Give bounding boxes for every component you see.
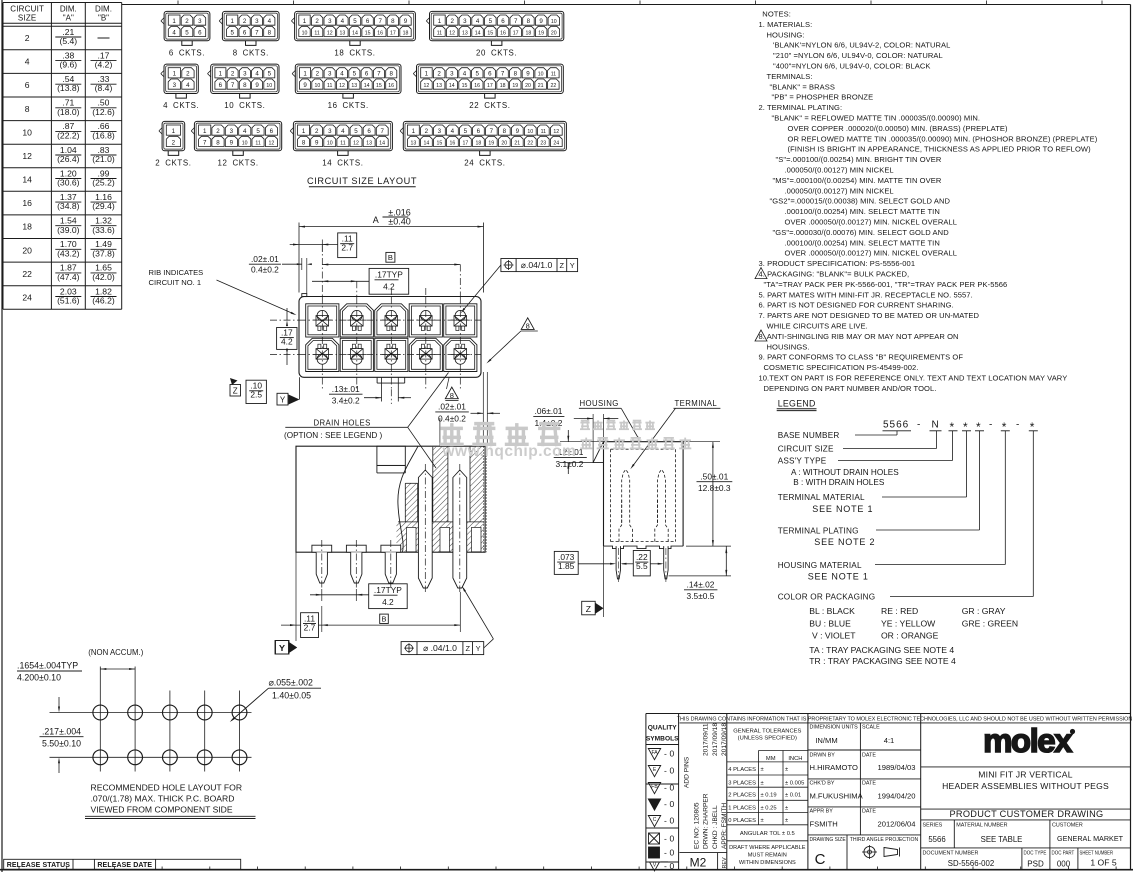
svg-text:10: 10 <box>266 83 272 89</box>
svg-text:(4.2): (4.2) <box>95 60 113 70</box>
svg-text:OR REFLOWED MATTE TIN .000035/: OR REFLOWED MATTE TIN .000035/(0.00090) … <box>788 134 1098 143</box>
svg-text:18: 18 <box>500 83 506 89</box>
svg-text:(13.8): (13.8) <box>57 83 80 93</box>
svg-text:3.4±0.2: 3.4±0.2 <box>332 395 360 405</box>
svg-text:17: 17 <box>513 30 519 36</box>
svg-text:22: 22 <box>22 269 32 279</box>
svg-text:16: 16 <box>388 83 394 89</box>
svg-text:(NON ACCUM.): (NON ACCUM.) <box>88 648 143 657</box>
svg-text:DATE: DATE <box>862 753 876 759</box>
svg-text:"400"=NYLON 6/6, UL94V-0, COLO: "400"=NYLON 6/6, UL94V-0, COLOR: BLACK <box>773 62 931 71</box>
svg-text:"BLANK" = BRASS: "BLANK" = BRASS <box>770 82 836 91</box>
dim .11/2.7 top <box>338 233 357 258</box>
svg-text:"GS2"=.000015/(0.00038) MIN. S: "GS2"=.000015/(0.00038) MIN. SELECT GOLD… <box>770 197 951 206</box>
svg-text:5: 5 <box>230 29 234 36</box>
svg-text:Z: Z <box>560 261 565 270</box>
connector 2 ckts <box>162 121 185 150</box>
svg-text:4.2: 4.2 <box>383 281 395 291</box>
svg-text:THIRD ANGLE PROJECTION: THIRD ANGLE PROJECTION <box>850 837 919 843</box>
svg-text:16: 16 <box>22 198 32 208</box>
svg-text:MINI FIT JR VERTICAL: MINI FIT JR VERTICAL <box>978 770 1072 780</box>
svg-text:2: 2 <box>243 18 247 25</box>
svg-text:5. PART MATES WITH MINI-FIT JR: 5. PART MATES WITH MINI-FIT JR. RECEPTAC… <box>759 290 973 299</box>
svg-text:SEE NOTE 2: SEE NOTE 2 <box>814 537 875 547</box>
svg-text:(26.4): (26.4) <box>57 154 80 164</box>
svg-text:4: 4 <box>476 18 480 25</box>
svg-text:TERMINAL PLATING: TERMINAL PLATING <box>778 527 859 536</box>
svg-text:1994/04/20: 1994/04/20 <box>878 792 916 801</box>
svg-text:SEE TABLE: SEE TABLE <box>981 835 1023 844</box>
svg-text:.14±.02: .14±.02 <box>687 580 715 590</box>
svg-text:4: 4 <box>341 128 345 135</box>
svg-text:.1654±.004TYP: .1654±.004TYP <box>17 661 78 671</box>
svg-text:11: 11 <box>314 30 319 36</box>
title block outer <box>645 714 647 870</box>
svg-text:9: 9 <box>303 82 307 89</box>
svg-text:9. PART CONFORMS TO CLASS "B": 9. PART CONFORMS TO CLASS "B" REQUIREMEN… <box>759 353 964 362</box>
svg-text:QUALITY: QUALITY <box>648 725 678 732</box>
svg-text:molex: molex <box>983 722 1073 759</box>
svg-text:0: 0 <box>670 861 675 871</box>
svg-text:WHILE CIRCUITS ARE LIVE.: WHILE CIRCUITS ARE LIVE. <box>767 322 868 331</box>
front view tall pins 4-5 <box>418 470 432 588</box>
svg-text:DOC PART: DOC PART <box>1051 850 1074 856</box>
svg-text:.02±.01: .02±.01 <box>251 254 279 264</box>
svg-text:6: 6 <box>501 18 505 25</box>
svg-text:0.4±0.2: 0.4±0.2 <box>251 265 279 275</box>
svg-text:14: 14 <box>22 175 32 185</box>
svg-text:(34.8): (34.8) <box>57 201 80 211</box>
svg-text:3: 3 <box>450 71 454 78</box>
circuit size table <box>3 2 122 4</box>
svg-text:10: 10 <box>551 19 557 25</box>
svg-text:BASE NUMBER: BASE NUMBER <box>778 431 840 440</box>
svg-text:22 CKTS.: 22 CKTS. <box>469 101 510 110</box>
datum flag z side view <box>603 546 605 617</box>
svg-text:12.8±0.3: 12.8±0.3 <box>698 483 731 493</box>
svg-text:(OPTION : SEE LEGEND ): (OPTION : SEE LEGEND ) <box>284 431 383 440</box>
molex logo <box>921 766 1131 768</box>
svg-text:(37.8): (37.8) <box>92 248 115 258</box>
svg-text:11: 11 <box>340 140 345 146</box>
svg-text:8: 8 <box>526 322 530 331</box>
dim .17TYP/4.2 top <box>369 268 409 294</box>
drawing size third angle <box>846 835 848 870</box>
svg-text:"GS"=.000030/(0.00076) MIN. SE: "GS"=.000030/(0.00076) MIN. SELECT GOLD … <box>773 228 950 237</box>
svg-text:YE : YELLOW: YE : YELLOW <box>881 618 936 628</box>
frame zone ticks top <box>177 1 179 5</box>
svg-text:DIMENSION UNITS: DIMENSION UNITS <box>810 725 859 731</box>
svg-text:16: 16 <box>377 30 383 36</box>
svg-text:20: 20 <box>501 140 507 146</box>
svg-text:DEPENDING ON PART NUMBER AND/O: DEPENDING ON PART NUMBER AND/OR TOOL. <box>764 384 937 393</box>
svg-text:ADD PINS: ADD PINS <box>684 756 691 788</box>
svg-text:9: 9 <box>516 128 520 135</box>
connector 8 ckts <box>222 11 279 40</box>
svg-text:.217±.004: .217±.004 <box>42 726 81 736</box>
side view dims <box>683 441 720 443</box>
svg-text:1: 1 <box>173 71 177 78</box>
svg-text:5: 5 <box>268 71 272 78</box>
svg-text:12: 12 <box>22 151 32 161</box>
svg-text:(8.4): (8.4) <box>95 83 113 93</box>
svg-text:2.7: 2.7 <box>304 622 316 632</box>
svg-text:3: 3 <box>463 18 467 25</box>
svg-text:11: 11 <box>541 129 546 135</box>
svg-text:11: 11 <box>255 140 260 146</box>
svg-text:8: 8 <box>389 71 393 78</box>
svg-text:DATE: DATE <box>862 781 876 787</box>
drain tab below top view <box>376 377 378 383</box>
svg-text:6: 6 <box>198 29 202 36</box>
svg-text:(25.2): (25.2) <box>92 178 115 188</box>
svg-text:CIRCUIT NO. 1: CIRCUIT NO. 1 <box>149 278 202 287</box>
svg-text:3: 3 <box>198 18 202 25</box>
datum flags z y near top view <box>230 385 241 397</box>
svg-text:±: ± <box>761 818 764 824</box>
svg-text:1. MATERIALS:: 1. MATERIALS: <box>759 20 813 29</box>
svg-text:20: 20 <box>551 30 557 36</box>
svg-text:ANGULAR TOL ± 0.5: ANGULAR TOL ± 0.5 <box>740 831 795 837</box>
svg-text:HOUSING:: HOUSING: <box>767 30 805 39</box>
front view dims below <box>369 584 408 609</box>
svg-text:15: 15 <box>365 30 371 36</box>
svg-text:1: 1 <box>230 18 234 25</box>
svg-text:8. ANTI-SHINGLING RIB MAY OR M: 8. ANTI-SHINGLING RIB MAY OR MAY NOT APP… <box>759 332 959 341</box>
svg-text:1 PLACES: 1 PLACES <box>728 806 756 812</box>
svg-text:C: C <box>815 851 826 868</box>
svg-text:000: 000 <box>1057 860 1071 869</box>
svg-text:5: 5 <box>185 29 189 36</box>
svg-text:4 CKTS.: 4 CKTS. <box>163 101 199 110</box>
svg-text:TR : TRAY PACKAGING SEE NOTE 4: TR : TRAY PACKAGING SEE NOTE 4 <box>809 656 956 666</box>
svg-text:24: 24 <box>22 293 32 303</box>
svg-text:8: 8 <box>391 18 395 25</box>
svg-text:10 CKTS.: 10 CKTS. <box>224 101 265 110</box>
svg-text:-: - <box>664 861 667 871</box>
svg-text:Y: Y <box>279 643 285 653</box>
svg-text:C: C <box>653 817 657 823</box>
svg-text:12 CKTS.: 12 CKTS. <box>218 158 259 167</box>
svg-text:8: 8 <box>450 391 454 400</box>
svg-text:8: 8 <box>216 139 220 146</box>
svg-text:2. TERMINAL PLATING:: 2. TERMINAL PLATING: <box>759 103 843 112</box>
svg-text:GENERAL MARKET: GENERAL MARKET <box>1057 834 1124 843</box>
svg-text:(33.6): (33.6) <box>92 225 115 235</box>
svg-text:(21.0): (21.0) <box>92 154 115 164</box>
svg-text:-: - <box>989 420 992 431</box>
svg-text:12: 12 <box>553 129 559 135</box>
general tolerances box <box>807 714 809 870</box>
svg-text:6: 6 <box>366 18 370 25</box>
svg-text:DRWN BY: DRWN BY <box>810 753 836 759</box>
svg-text:www.hqchip.com: www.hqchip.com <box>442 443 577 460</box>
svg-text:GR : GRAY: GR : GRAY <box>962 606 1006 616</box>
connector 20 ckts <box>430 11 564 40</box>
svg-text:Y: Y <box>476 644 481 653</box>
quality symbol rows <box>648 749 660 760</box>
svg-text:6: 6 <box>367 128 371 135</box>
svg-text:13: 13 <box>351 83 357 89</box>
top view cavities <box>306 304 339 337</box>
svg-text:1: 1 <box>438 18 442 25</box>
svg-text:HOUSING MATERIAL: HOUSING MATERIAL <box>778 561 862 570</box>
svg-text:SIZE: SIZE <box>18 13 37 22</box>
note 8 triangle right <box>521 318 534 330</box>
svg-text:.000050/(0.00127) MIN NICKEL: .000050/(0.00127) MIN NICKEL <box>785 186 894 195</box>
feature control frame bottom <box>401 642 484 655</box>
svg-text:DOCUMENT NUMBER: DOCUMENT NUMBER <box>923 851 979 857</box>
svg-text:18: 18 <box>526 30 532 36</box>
svg-text:IN/MM: IN/MM <box>815 736 837 745</box>
svg-text:RECOMMENDED HOLE LAYOUT FOR: RECOMMENDED HOLE LAYOUT FOR <box>91 783 243 793</box>
svg-text:3: 3 <box>328 128 332 135</box>
svg-text:0: 0 <box>670 834 675 844</box>
svg-text:Z: Z <box>233 387 238 396</box>
legend callout lines <box>896 431 898 435</box>
svg-text:11: 11 <box>437 30 442 36</box>
svg-text:13: 13 <box>436 83 442 89</box>
svg-text:BU : BLUE: BU : BLUE <box>809 618 851 628</box>
svg-text:9: 9 <box>526 71 530 78</box>
svg-text:DATE: DATE <box>862 809 876 815</box>
svg-text:"B": "B" <box>98 13 109 22</box>
svg-text:.000050/(0.00127) MIN NICKEL: .000050/(0.00127) MIN NICKEL <box>785 166 894 175</box>
dim B top <box>386 252 395 262</box>
svg-text:±0.40: ±0.40 <box>388 217 410 227</box>
svg-text:TA : TRAY PACKAGING SEE NOTE 4: TA : TRAY PACKAGING SEE NOTE 4 <box>809 645 954 655</box>
svg-text:16 CKTS.: 16 CKTS. <box>328 101 369 110</box>
svg-text:19: 19 <box>538 30 544 36</box>
svg-text:7: 7 <box>203 139 207 146</box>
svg-text:7: 7 <box>501 71 505 78</box>
svg-text:-: - <box>664 799 667 809</box>
svg-text:.000100/(0.00254) MIN. SELECT: .000100/(0.00254) MIN. SELECT MATTE TIN <box>785 207 940 216</box>
svg-text:0: 0 <box>670 783 675 793</box>
svg-text:"A": "A" <box>63 13 74 22</box>
svg-text:2: 2 <box>186 71 190 78</box>
svg-text:18: 18 <box>22 222 32 232</box>
svg-text:1: 1 <box>425 71 429 78</box>
svg-text:CHKD : JBELL: CHKD : JBELL <box>712 805 719 849</box>
svg-text:Z: Z <box>586 604 591 614</box>
front view section hatching <box>398 446 418 552</box>
revision column <box>726 714 728 870</box>
svg-text:7: 7 <box>255 29 259 36</box>
extension lines right of top view <box>482 372 484 446</box>
svg-text:± 0.25: ± 0.25 <box>761 806 777 812</box>
svg-text:0.4±0.2: 0.4±0.2 <box>438 413 466 423</box>
svg-text:2.7: 2.7 <box>341 243 353 253</box>
dim A .016/0.40 <box>298 223 300 293</box>
svg-text:24: 24 <box>553 140 559 146</box>
feature control frame top <box>501 259 578 272</box>
svg-text:FA: FA <box>651 750 658 756</box>
hole layout crosshair lines <box>50 712 252 714</box>
svg-text:2: 2 <box>425 128 429 135</box>
svg-text:⌀.04/1.0: ⌀.04/1.0 <box>521 260 553 270</box>
svg-text:PRODUCT CUSTOMER DRAWING: PRODUCT CUSTOMER DRAWING <box>949 809 1103 819</box>
svg-text:4: 4 <box>451 128 455 135</box>
svg-text:SERIES: SERIES <box>923 823 943 829</box>
connector 18 ckts <box>295 11 416 40</box>
svg-text:HEADER ASSEMBLIES WITHOUT PEGS: HEADER ASSEMBLIES WITHOUT PEGS <box>942 781 1109 791</box>
svg-text:16: 16 <box>450 140 456 146</box>
svg-text:MUST REMAIN: MUST REMAIN <box>748 853 787 859</box>
svg-text:14 CKTS.: 14 CKTS. <box>322 158 363 167</box>
svg-text:5.50±0.10: 5.50±0.10 <box>42 739 81 749</box>
svg-text:4: 4 <box>340 71 344 78</box>
svg-text:4: 4 <box>255 71 259 78</box>
svg-text:-: - <box>1016 420 1019 431</box>
note 8 triangle near drain <box>445 387 458 399</box>
connector 24 ckts <box>403 121 566 150</box>
svg-text:2: 2 <box>216 128 220 135</box>
svg-text:*: * <box>950 420 955 434</box>
svg-text:COSMETIC SPECIFICATION PS-4549: COSMETIC SPECIFICATION PS-45499-002. <box>764 363 919 372</box>
svg-text:'BLANK'=NYLON 6/6, UL94V-2, CO: 'BLANK'=NYLON 6/6, UL94V-2, COLOR: NATUR… <box>773 41 950 50</box>
datum flag y hole layout <box>276 641 290 655</box>
svg-text:DOC TYPE: DOC TYPE <box>1023 850 1046 856</box>
watermark hqchip <box>441 427 463 430</box>
svg-text:(47.4): (47.4) <box>57 272 80 282</box>
svg-text:DRAFT WHERE APPLICABLE: DRAFT WHERE APPLICABLE <box>729 845 806 851</box>
svg-text:± 0.01: ± 0.01 <box>785 793 801 799</box>
svg-text:V : VIOLET: V : VIOLET <box>812 630 856 640</box>
svg-text:DRAIN HOLES: DRAIN HOLES <box>314 418 371 427</box>
svg-text:13: 13 <box>462 30 468 36</box>
svg-text:4: 4 <box>172 29 176 36</box>
svg-text:"PB" = PHOSPHER BRONZE: "PB" = PHOSPHER BRONZE <box>772 93 874 102</box>
svg-text:*: * <box>963 420 968 434</box>
svg-text:2 PLACES: 2 PLACES <box>728 793 756 799</box>
svg-text:4.2: 4.2 <box>382 597 394 607</box>
svg-text:3: 3 <box>438 128 442 135</box>
svg-text:±: ± <box>761 780 764 786</box>
svg-text:14: 14 <box>449 83 455 89</box>
svg-text:(39.0): (39.0) <box>57 225 80 235</box>
svg-text:6: 6 <box>477 128 481 135</box>
svg-text:2: 2 <box>172 139 176 146</box>
svg-text:FB: FB <box>651 784 658 790</box>
svg-text:0: 0 <box>670 816 675 826</box>
svg-text:±: ± <box>761 767 764 773</box>
svg-text:2017/09/18: 2017/09/18 <box>712 723 719 756</box>
svg-text:± 0.19: ± 0.19 <box>761 793 777 799</box>
svg-text:TERMINAL: TERMINAL <box>675 399 718 408</box>
svg-text:14: 14 <box>475 30 481 36</box>
svg-text:M.FUKUSHIMA: M.FUKUSHIMA <box>810 792 864 801</box>
front view drain hole slots <box>407 527 417 551</box>
svg-text:4: 4 <box>243 128 247 135</box>
svg-text:-: - <box>664 766 667 776</box>
svg-text:CIRCUIT: CIRCUIT <box>10 4 44 13</box>
svg-text:APPR: FSMITH: APPR: FSMITH <box>721 803 728 849</box>
svg-text:11: 11 <box>327 83 332 89</box>
svg-text:0: 0 <box>670 749 675 759</box>
svg-text:5566: 5566 <box>883 420 909 431</box>
svg-text:DRAWING SIZE: DRAWING SIZE <box>810 837 847 843</box>
svg-text:17: 17 <box>463 140 469 146</box>
svg-text:"210" =NYLON 6/6, UL94V-0, COL: "210" =NYLON 6/6, UL94V-0, COLOR: NATURA… <box>773 51 943 60</box>
svg-text:9: 9 <box>230 139 234 146</box>
svg-text:10: 10 <box>302 30 308 36</box>
svg-text:-: - <box>664 783 667 793</box>
connector 12 ckts <box>194 121 281 150</box>
svg-text:5566: 5566 <box>928 835 945 844</box>
svg-text:5: 5 <box>256 128 260 135</box>
svg-text:6. PART IS NOT DESIGNED FOR CU: 6. PART IS NOT DESIGNED FOR CURRENT SHAR… <box>759 301 954 310</box>
svg-text:4:1: 4:1 <box>884 736 895 745</box>
svg-text:8: 8 <box>503 128 507 135</box>
svg-text:0 PLACES: 0 PLACES <box>728 818 756 824</box>
svg-text:13: 13 <box>366 140 372 146</box>
svg-text:15: 15 <box>437 140 443 146</box>
svg-text:7. PARTS ARE NOT DESIGNED TO B: 7. PARTS ARE NOT DESIGNED TO BE MATED OR… <box>759 311 980 320</box>
svg-text:(22.2): (22.2) <box>57 130 80 140</box>
svg-text:B : WITH DRAIN HOLES: B : WITH DRAIN HOLES <box>793 478 885 487</box>
svg-text:1.85: 1.85 <box>558 561 575 571</box>
svg-text:CHK'D BY: CHK'D BY <box>810 781 835 787</box>
top view centerlines <box>321 245 323 297</box>
svg-text:E: E <box>653 767 657 773</box>
front view dotted right edge <box>483 446 485 552</box>
svg-text:HOUSINGS.: HOUSINGS. <box>767 342 810 351</box>
svg-text:4.2: 4.2 <box>281 337 293 347</box>
svg-text:8: 8 <box>243 82 247 89</box>
svg-text:18: 18 <box>403 30 409 36</box>
note triangle markers 4 and 8 <box>755 268 767 279</box>
svg-text:SEE NOTE 1: SEE NOTE 1 <box>808 572 869 582</box>
svg-text:A : WITHOUT DRAIN HOLES: A : WITHOUT DRAIN HOLES <box>791 468 899 477</box>
svg-text:RE : RED: RE : RED <box>881 606 918 616</box>
document number row <box>1021 848 1023 870</box>
svg-text:LEGEND: LEGEND <box>778 399 816 409</box>
svg-text:(5.4): (5.4) <box>59 36 77 46</box>
svg-text:12: 12 <box>327 30 333 36</box>
svg-text:(46.2): (46.2) <box>92 296 115 306</box>
svg-text:20: 20 <box>525 83 531 89</box>
svg-text:SYMBOLS: SYMBOLS <box>646 736 679 743</box>
svg-text:(16.8): (16.8) <box>92 130 115 140</box>
svg-text:DRWN: ZHARPER: DRWN: ZHARPER <box>703 793 710 849</box>
release status bar <box>4 859 241 869</box>
svg-text:4: 4 <box>463 71 467 78</box>
svg-text:8: 8 <box>268 29 272 36</box>
svg-text:OR : ORANGE: OR : ORANGE <box>881 630 939 640</box>
svg-text:11: 11 <box>551 72 556 78</box>
svg-text:Z: Z <box>465 644 470 653</box>
svg-text:.06±.01: .06±.01 <box>535 406 563 416</box>
svg-text:1989/04/03: 1989/04/03 <box>878 763 916 772</box>
svg-text:±: ± <box>785 818 788 824</box>
svg-text:6: 6 <box>25 80 30 90</box>
svg-text:1: 1 <box>412 128 416 135</box>
svg-text:OVER .000050/(0.00127) MIN. NI: OVER .000050/(0.00127) MIN. NICKEL OVERA… <box>785 249 958 258</box>
svg-text:5: 5 <box>489 18 493 25</box>
svg-text:HOUSING: HOUSING <box>580 399 619 408</box>
svg-text:FSMITH: FSMITH <box>810 820 838 829</box>
svg-text:.02±.01: .02±.01 <box>438 402 466 412</box>
svg-text:13: 13 <box>411 140 417 146</box>
connector 14 ckts <box>293 121 392 150</box>
svg-text:CIRCUIT SIZE LAYOUT: CIRCUIT SIZE LAYOUT <box>307 176 417 186</box>
svg-text:4: 4 <box>186 82 190 89</box>
svg-text:.50±.01: .50±.01 <box>700 472 728 482</box>
svg-text:0: 0 <box>670 848 675 858</box>
svg-text:DIM.: DIM. <box>95 4 112 13</box>
title text <box>921 808 1131 810</box>
